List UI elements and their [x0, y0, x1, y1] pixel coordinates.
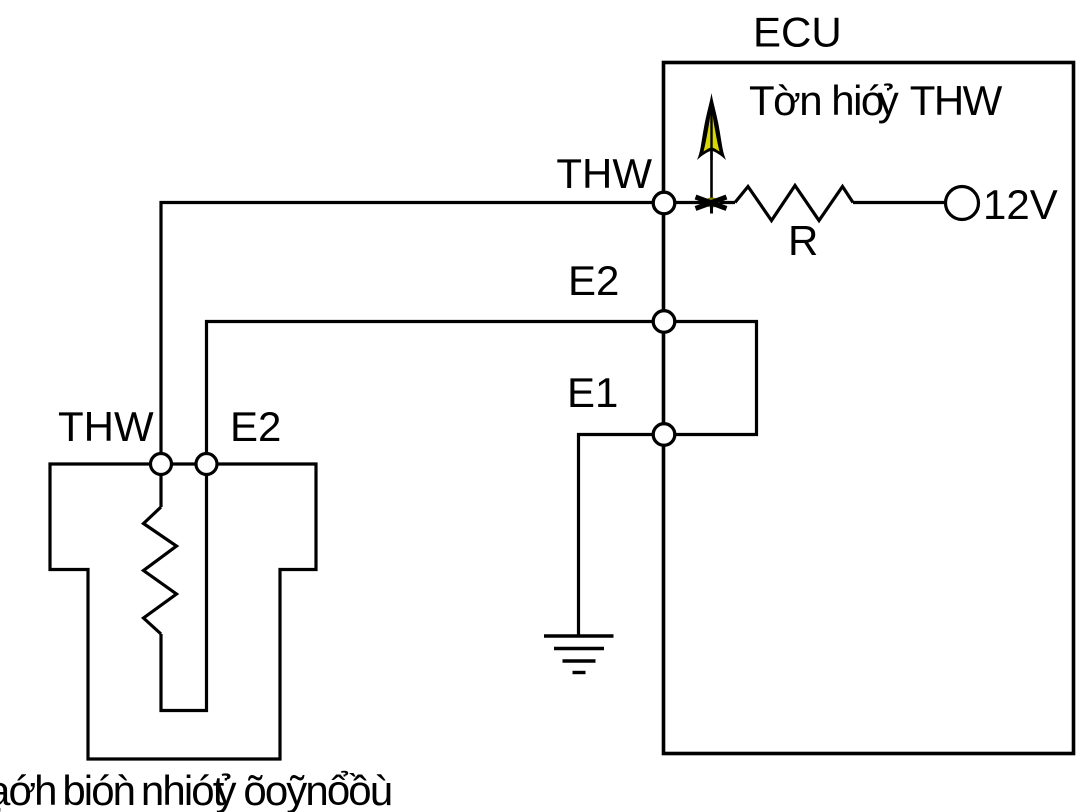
wire E1 to ground	[579, 435, 657, 638]
thermistor zigzag	[144, 507, 177, 634]
ground	[544, 636, 614, 673]
svg-text:E1: E1	[567, 369, 618, 416]
ECU box U1	[664, 63, 1074, 754]
thermistor lead top	[159, 474, 162, 507]
wire E2 net: sensor to ECU	[207, 322, 665, 456]
svg-text:E2: E2	[230, 403, 281, 450]
wire THW net: sensor to ECU	[161, 203, 664, 456]
node E2 (sensor pin)	[196, 454, 217, 475]
svg-text:ECU: ECU	[753, 9, 842, 56]
node E1 (ECU pin)	[653, 424, 675, 446]
junction star at arrow base	[696, 197, 727, 214]
node E2 (ECU pin)	[653, 311, 675, 333]
svg-text:THW: THW	[556, 150, 652, 197]
resistor R	[735, 186, 853, 221]
wire E2-E1 internal loop	[672, 322, 757, 435]
svg-text:Tờn hióỷ THW: Tờn hióỷ THW	[749, 77, 1003, 124]
svg-text:R: R	[788, 217, 818, 264]
terminal 12V	[946, 187, 979, 220]
svg-text:E2: E2	[568, 257, 619, 304]
sensor body outline	[50, 464, 316, 759]
wire THW node to resistor	[675, 201, 735, 204]
svg-text:ạớh bióǹ nhiótỷ õoỹnổồù: ạớh bióǹ nhiótỷ õoỹnổồù	[0, 767, 391, 812]
svg-text:THW: THW	[58, 403, 154, 450]
svg-text:12V: 12V	[983, 181, 1058, 228]
node THW (ECU pin)	[653, 192, 675, 214]
node THW (sensor pin)	[151, 454, 172, 475]
wire resistor to 12V	[853, 201, 946, 204]
thermistor bottom U to E2	[161, 474, 207, 711]
signal arrow	[697, 93, 726, 199]
